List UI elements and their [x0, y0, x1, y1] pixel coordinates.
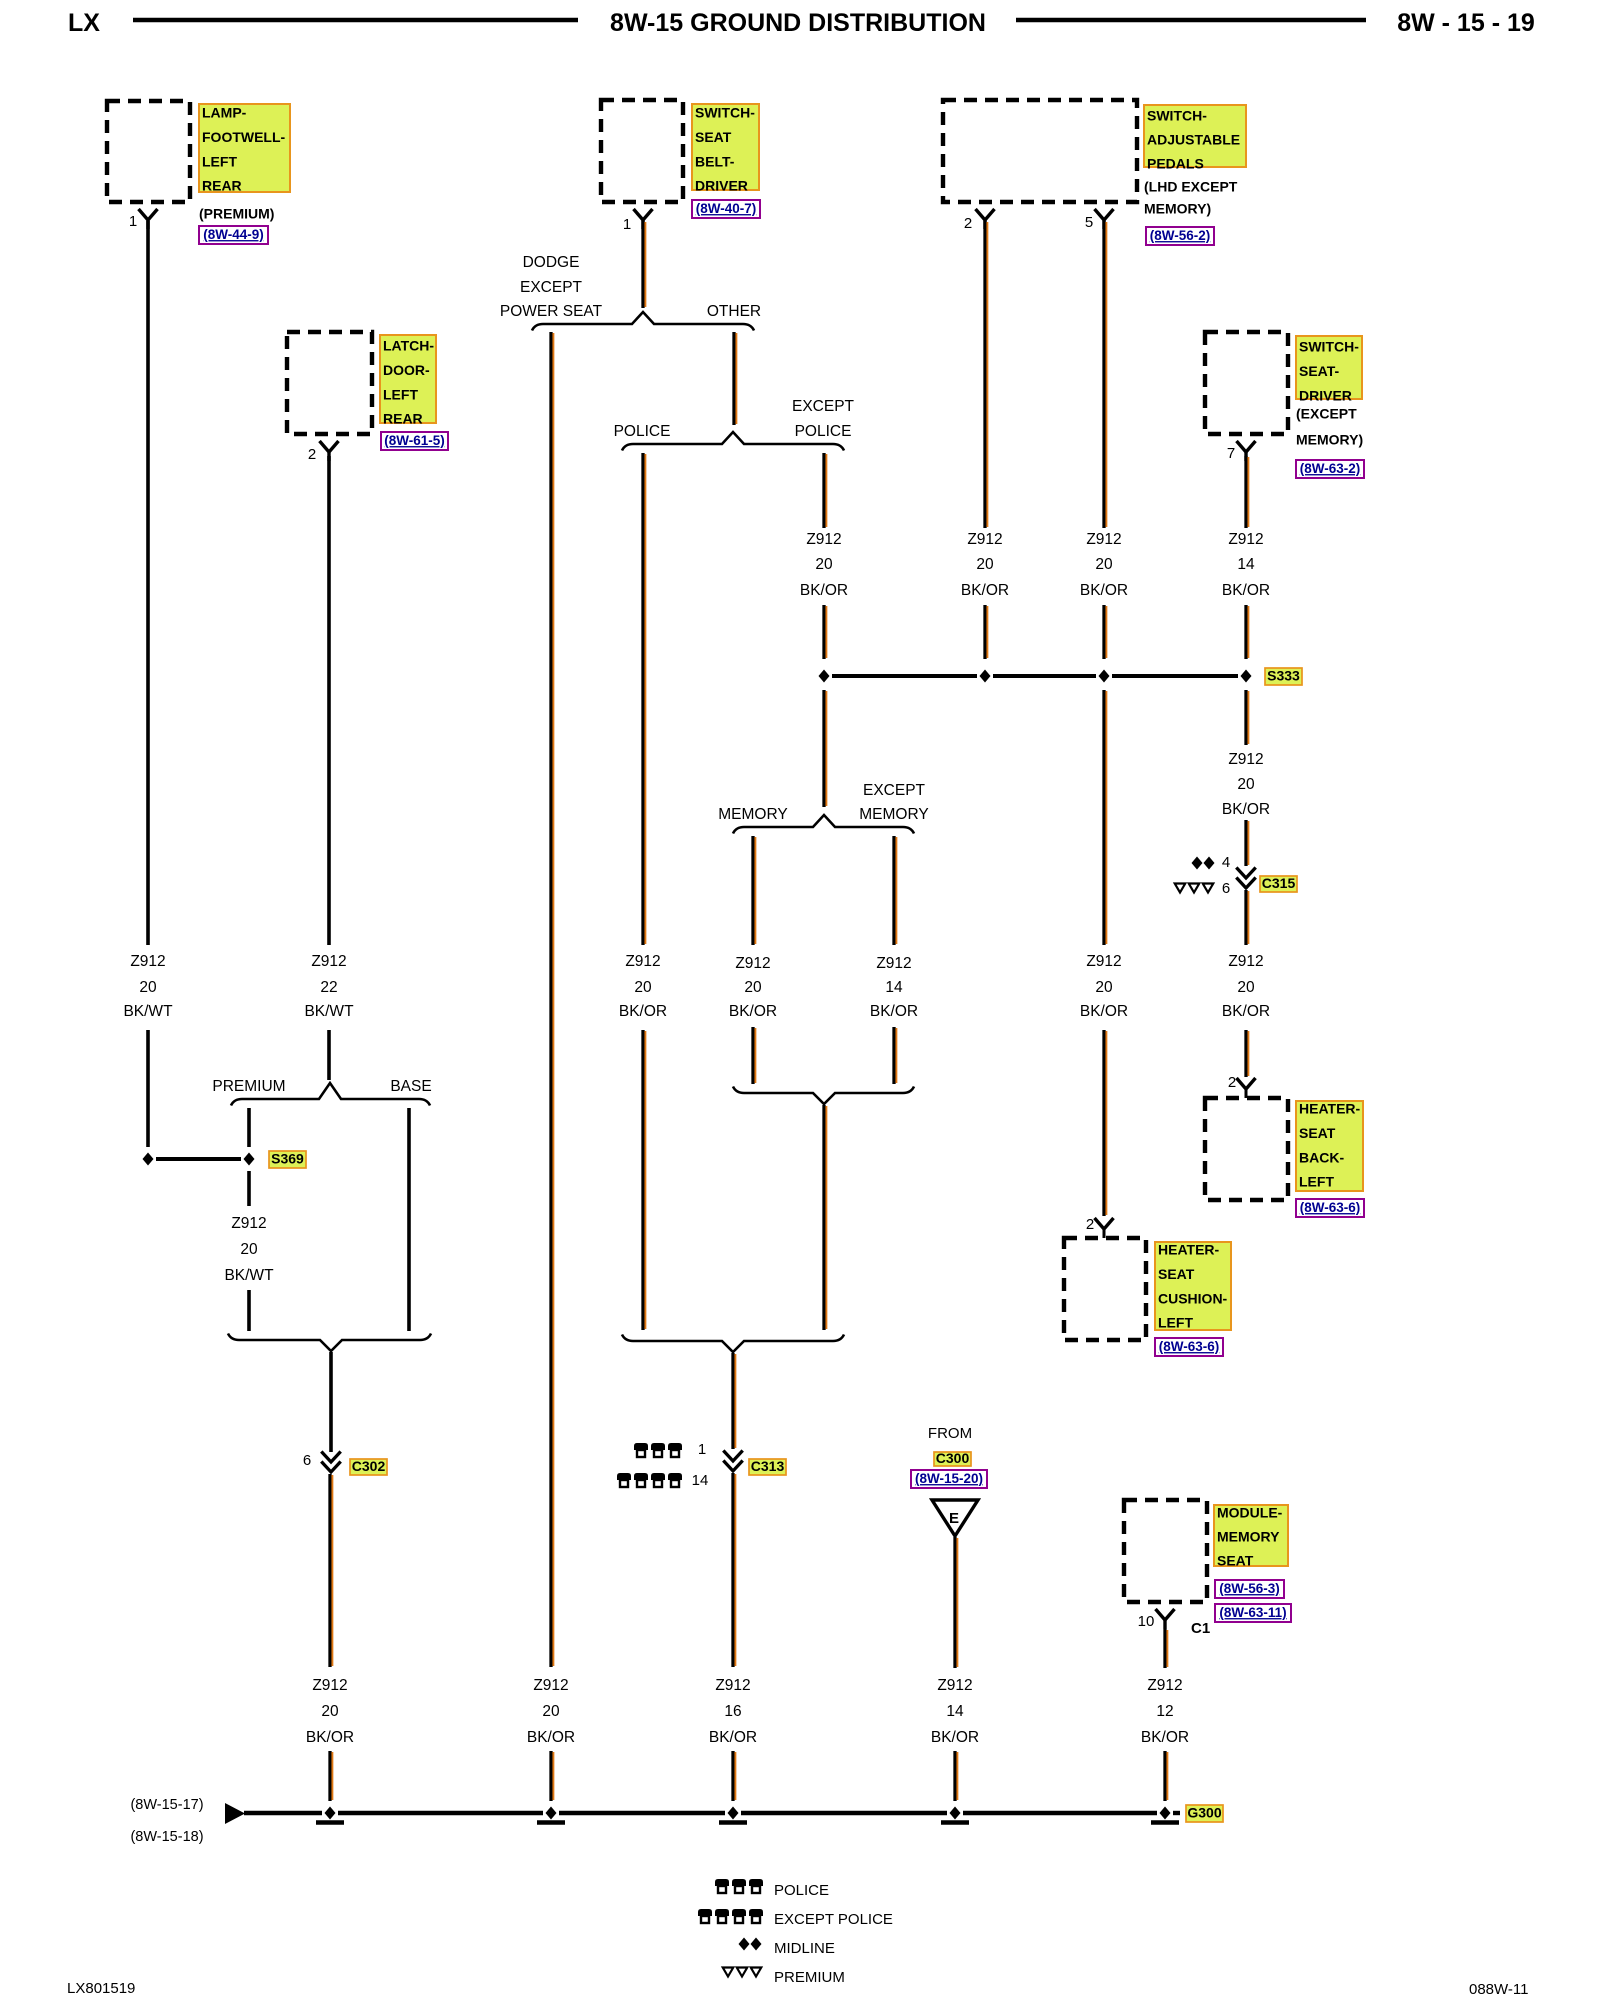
wire EXCEPT MEMORY branch upper	[894, 836, 896, 945]
wire merged memory output	[824, 1105, 826, 1330]
svg-text:Z912: Z912	[937, 1677, 972, 1694]
svg-text:EXCEPT: EXCEPT	[863, 782, 926, 799]
wire Z912 22 BK/WT from latch	[327, 456, 331, 945]
wire seat switch to splice S333	[1246, 605, 1248, 659]
svg-text:SWITCH-: SWITCH-	[1147, 108, 1207, 124]
svg-text:(PREMIUM): (PREMIUM)	[199, 206, 274, 222]
svg-text:E: E	[949, 1510, 959, 1527]
svg-text:POLICE: POLICE	[614, 423, 671, 440]
svg-text:20: 20	[815, 556, 833, 573]
svg-text:Z912: Z912	[1086, 531, 1121, 548]
svg-text:8W-15 GROUND DISTRIBUTION: 8W-15 GROUND DISTRIBUTION	[610, 9, 986, 37]
svg-text:(8W-15-20): (8W-15-20)	[915, 1471, 983, 1486]
svg-text:Z912: Z912	[625, 953, 660, 970]
label (LHD EXCEPT MEMORY)	[1144, 179, 1238, 217]
svg-text:(LHD EXCEPT: (LHD EXCEPT	[1144, 179, 1238, 195]
brace merge police/memory outputs	[622, 1335, 844, 1353]
svg-text:Z912: Z912	[715, 1677, 750, 1694]
svg-text:12: 12	[1156, 1703, 1173, 1720]
in-line connector C313	[723, 1451, 742, 1472]
svg-text:PREMIUM: PREMIUM	[774, 1969, 845, 1986]
wire below C315	[1246, 890, 1248, 945]
svg-text:MODULE-: MODULE-	[1217, 1505, 1283, 1521]
legend police icons	[715, 1879, 729, 1893]
svg-text:BK/OR: BK/OR	[1080, 582, 1128, 599]
component box HEATER-SEAT BACK-LEFT	[1205, 1098, 1288, 1200]
svg-text:C1: C1	[1191, 1620, 1210, 1637]
ground bus arrow	[225, 1803, 245, 1824]
link 8W-63-11	[1215, 1604, 1291, 1622]
svg-text:POWER SEAT: POWER SEAT	[500, 303, 603, 320]
svg-text:20: 20	[542, 1703, 560, 1720]
svg-text:Z912: Z912	[806, 531, 841, 548]
svg-text:(8W-63-6): (8W-63-6)	[1300, 1200, 1361, 1215]
svg-text:20: 20	[1095, 556, 1113, 573]
wire PREMIUM branch to S369	[247, 1108, 251, 1147]
svg-text:20: 20	[976, 556, 994, 573]
wire premium lower	[247, 1290, 251, 1331]
svg-text:6: 6	[303, 1452, 311, 1469]
header rule left	[133, 18, 578, 23]
link 8W-63-6 cushion	[1155, 1338, 1223, 1356]
brace split DODGE/OTHER	[532, 312, 754, 331]
connector Y module C1	[1156, 1609, 1175, 1629]
svg-text:SEAT: SEAT	[695, 129, 732, 145]
svg-text:POLICE: POLICE	[795, 423, 852, 440]
component box LATCH-DOOR-LEFT REAR	[287, 332, 372, 434]
svg-text:DODGE: DODGE	[523, 254, 580, 271]
svg-text:(8W-15-17): (8W-15-17)	[130, 1797, 203, 1813]
wire below S333 on seat switch column	[1246, 690, 1248, 745]
wire to connector C302	[329, 1352, 333, 1452]
wire PREMIUM below S369	[247, 1171, 251, 1206]
svg-text:OTHER: OTHER	[707, 303, 761, 320]
svg-text:LAMP-: LAMP-	[202, 105, 247, 121]
wire stub to ground bus C302 column	[330, 1751, 332, 1801]
wire seat switch upper	[1246, 456, 1248, 528]
header rule right	[1016, 18, 1366, 23]
wire pedals pin 5 to splice S333	[1104, 605, 1106, 659]
wire stub to ground bus C313 column	[733, 1751, 735, 1801]
svg-text:MEMORY: MEMORY	[859, 806, 928, 823]
wire stub to ground bus dodge column	[551, 1751, 553, 1801]
connector Y pedals pin 2	[976, 209, 995, 229]
legend premium icons	[723, 1968, 734, 1977]
link 8W-56-2	[1146, 227, 1214, 245]
svg-text:14: 14	[946, 1703, 964, 1720]
svg-text:PEDALS: PEDALS	[1147, 156, 1204, 172]
link 8W-63-2	[1296, 460, 1364, 478]
svg-text:ADJUSTABLE: ADJUSTABLE	[1147, 132, 1240, 148]
connector tag C315	[1260, 875, 1297, 892]
link 8W-63-6 heater back	[1296, 1199, 1364, 1217]
connector tag C302	[350, 1458, 387, 1475]
svg-text:Z912: Z912	[967, 531, 1002, 548]
svg-text:BK/OR: BK/OR	[619, 1003, 667, 1020]
component box SWITCH-SEAT BELT-DRIVER	[601, 100, 683, 202]
svg-text:SEAT-: SEAT-	[1299, 363, 1340, 379]
svg-text:14: 14	[1237, 556, 1255, 573]
svg-text:DRIVER: DRIVER	[1299, 388, 1352, 404]
svg-text:1: 1	[623, 216, 631, 233]
svg-text:LEFT: LEFT	[383, 386, 418, 402]
svg-text:1: 1	[129, 213, 137, 230]
svg-text:Z912: Z912	[311, 953, 346, 970]
svg-text:MEMORY): MEMORY)	[1144, 201, 1211, 217]
component box SWITCH-ADJUSTABLE PEDALS	[943, 100, 1137, 202]
wire POLICE branch upper	[643, 453, 645, 945]
label LATCH-DOOR-LEFT REAR	[380, 335, 436, 427]
svg-text:BK/OR: BK/OR	[1222, 582, 1270, 599]
brace split MEMORY/EXCEPT MEMORY	[733, 815, 914, 834]
svg-text:DOOR-: DOOR-	[383, 362, 430, 378]
svg-text:SEAT: SEAT	[1217, 1553, 1254, 1569]
wire Z912 20 BK/WT from lamp	[146, 221, 150, 945]
svg-text:Z912: Z912	[130, 953, 165, 970]
svg-text:LEFT: LEFT	[202, 153, 237, 169]
junction at pedals pin 5 wire	[1099, 670, 1110, 683]
splice tag S369	[269, 1151, 306, 1168]
connector Y heater cushion	[1095, 1218, 1114, 1229]
svg-text:C300: C300	[936, 1450, 970, 1466]
svg-text:2: 2	[1086, 1216, 1094, 1233]
splice S333 bus	[832, 674, 977, 678]
wire OTHER branch	[734, 332, 736, 425]
junction at seat switch wire	[1241, 670, 1252, 683]
connector Y seat belt switch	[634, 209, 653, 229]
svg-text:MEMORY: MEMORY	[718, 806, 787, 823]
svg-text:16: 16	[724, 1703, 741, 1720]
wire BASE branch	[407, 1108, 411, 1331]
svg-text:Z912: Z912	[876, 955, 911, 972]
ground junction at C300 column	[950, 1807, 961, 1820]
svg-text:C302: C302	[352, 1458, 386, 1474]
wire from S333 to memory brace	[824, 690, 826, 807]
svg-text:(8W-63-2): (8W-63-2)	[1300, 461, 1361, 476]
label SWITCH-SEAT BELT-DRIVER	[692, 104, 759, 194]
link 8W-61-5	[381, 432, 448, 450]
svg-text:4: 4	[1222, 854, 1230, 871]
ground junction at C1 column	[1160, 1807, 1171, 1820]
svg-text:1: 1	[698, 1441, 706, 1458]
svg-text:5: 5	[1085, 214, 1093, 231]
svg-text:Z912: Z912	[1086, 953, 1121, 970]
label (PREMIUM)	[199, 206, 274, 222]
svg-text:(8W-63-11): (8W-63-11)	[1219, 1605, 1286, 1620]
connector Y heater back	[1237, 1078, 1256, 1089]
wire pedals pin 2 upper	[985, 221, 987, 528]
svg-text:BK/OR: BK/OR	[527, 1729, 575, 1746]
svg-text:20: 20	[744, 979, 762, 996]
svg-text:Z912: Z912	[231, 1215, 266, 1232]
wire from S333 pin5 splice down	[1104, 690, 1106, 945]
svg-text:POLICE: POLICE	[774, 1882, 829, 1899]
svg-text:PREMIUM: PREMIUM	[212, 1078, 285, 1095]
svg-text:EXCEPT: EXCEPT	[792, 398, 855, 415]
svg-text:2: 2	[964, 215, 972, 232]
svg-text:BK/OR: BK/OR	[1080, 1003, 1128, 1020]
legend except police icons	[698, 1909, 712, 1923]
svg-text:BASE: BASE	[390, 1078, 431, 1095]
wire EXCEPT POLICE branch	[824, 453, 826, 528]
wire from C300 E	[955, 1537, 957, 1668]
svg-text:SEAT: SEAT	[1158, 1266, 1195, 1282]
label MODULE-MEMORY SEAT	[1214, 1505, 1288, 1569]
brace merge premium/base	[228, 1334, 431, 1352]
svg-text:REAR: REAR	[383, 411, 423, 427]
svg-text:(8W-63-6): (8W-63-6)	[1159, 1339, 1220, 1354]
svg-text:SWITCH-: SWITCH-	[695, 105, 755, 121]
junction at lamp wire	[143, 1153, 154, 1166]
svg-text:BK/OR: BK/OR	[729, 1003, 777, 1020]
svg-text:(8W-40-7): (8W-40-7)	[696, 201, 757, 216]
svg-text:HEATER-: HEATER-	[1158, 1242, 1220, 1258]
wire DODGE EXCEPT POWER SEAT branch	[551, 332, 553, 1667]
in-line connector C302	[321, 1452, 340, 1473]
component box LAMP-FOOTWELL-LEFT REAR	[107, 101, 190, 202]
in-line connector C315	[1236, 868, 1255, 889]
off-page connector E triangle	[932, 1500, 978, 1536]
label LAMP-FOOTWELL-LEFT REAR	[199, 104, 290, 194]
wire from seat belt switch to brace	[643, 221, 645, 308]
wire to heater cushion	[1104, 1030, 1106, 1216]
ground junction at C302 column	[325, 1807, 336, 1820]
svg-text:LX: LX	[68, 9, 100, 37]
junction at pedals pin 2 wire	[980, 670, 991, 683]
ground junction at dodge column	[546, 1807, 557, 1820]
svg-text:HEATER-: HEATER-	[1299, 1101, 1361, 1117]
svg-text:(EXCEPT: (EXCEPT	[1296, 406, 1357, 422]
wire except police to splice S333	[824, 605, 826, 659]
wire to C315	[1246, 820, 1248, 866]
svg-text:BK/OR: BK/OR	[870, 1003, 918, 1020]
label (EXCEPT MEMORY)	[1296, 406, 1363, 448]
svg-text:BK/WT: BK/WT	[224, 1267, 274, 1284]
svg-text:(8W-56-2): (8W-56-2)	[1150, 228, 1211, 243]
brace merge memory branches	[733, 1087, 914, 1105]
svg-text:20: 20	[240, 1241, 258, 1258]
svg-text:088W-11: 088W-11	[1469, 1981, 1528, 1998]
wire stub to ground bus C1 column	[1165, 1751, 1167, 1801]
svg-text:BACK-: BACK-	[1299, 1149, 1344, 1165]
svg-text:LEFT: LEFT	[1299, 1174, 1334, 1190]
wire below C313	[733, 1473, 735, 1667]
svg-text:10: 10	[1138, 1613, 1155, 1630]
svg-text:S369: S369	[271, 1151, 304, 1167]
component box HEATER-SEAT CUSHION-LEFT	[1064, 1238, 1146, 1340]
svg-text:C315: C315	[1262, 875, 1296, 891]
ground junction at C313 column	[728, 1807, 739, 1820]
wire below C302	[330, 1474, 332, 1667]
svg-text:20: 20	[1095, 979, 1113, 996]
link 8W-44-9	[199, 226, 268, 244]
svg-text:LATCH-: LATCH-	[383, 338, 434, 354]
svg-text:BK/OR: BK/OR	[931, 1729, 979, 1746]
svg-text:2: 2	[308, 446, 316, 463]
connector tag C300	[934, 1450, 971, 1466]
wire POLICE branch lower	[643, 1030, 645, 1330]
brace split POLICE/EXCEPT POLICE	[622, 432, 844, 451]
label HEATER-SEAT BACK-LEFT	[1296, 1101, 1363, 1191]
midline variant icons (2 diamonds)	[1192, 857, 1203, 870]
svg-text:EXCEPT: EXCEPT	[520, 279, 583, 296]
svg-text:20: 20	[321, 1703, 339, 1720]
svg-text:BK/WT: BK/WT	[123, 1003, 173, 1020]
connector Y latch door	[320, 441, 339, 461]
svg-text:BK/OR: BK/OR	[709, 1729, 757, 1746]
except police variant icons (4 terminals)	[617, 1473, 631, 1487]
svg-text:8W - 15 - 19: 8W - 15 - 19	[1397, 9, 1535, 37]
svg-text:(8W-56-3): (8W-56-3)	[1219, 1581, 1280, 1596]
svg-text:FROM: FROM	[928, 1425, 972, 1442]
wire below C1	[1165, 1629, 1167, 1668]
connector Y seat switch	[1237, 441, 1256, 461]
label SWITCH-ADJUSTABLE PEDALS	[1144, 105, 1246, 172]
svg-text:2: 2	[1228, 1074, 1236, 1091]
svg-text:20: 20	[1237, 979, 1255, 996]
svg-text:BK/OR: BK/OR	[961, 582, 1009, 599]
connector tag C313	[749, 1458, 786, 1475]
link 8W-56-3	[1215, 1580, 1284, 1598]
svg-text:S333: S333	[1267, 668, 1300, 684]
svg-text:BK/WT: BK/WT	[304, 1003, 354, 1020]
svg-text:BK/OR: BK/OR	[1222, 801, 1270, 818]
junction at except police wire	[819, 670, 830, 683]
svg-text:Z912: Z912	[1228, 531, 1263, 548]
svg-text:6: 6	[1222, 880, 1230, 897]
splice S369 bus	[156, 1157, 241, 1161]
svg-text:Z912: Z912	[1228, 953, 1263, 970]
svg-text:Z912: Z912	[1228, 751, 1263, 768]
label SWITCH-SEAT-DRIVER	[1296, 336, 1362, 404]
connector Y lamp footwell	[139, 209, 158, 229]
link 8W-15-20	[911, 1470, 987, 1488]
svg-text:BK/OR: BK/OR	[800, 582, 848, 599]
svg-text:SEAT: SEAT	[1299, 1125, 1336, 1141]
police variant icons (3 terminals)	[634, 1443, 648, 1457]
svg-text:14: 14	[885, 979, 903, 996]
svg-text:FOOTWELL-: FOOTWELL-	[202, 129, 286, 145]
svg-text:Z912: Z912	[312, 1677, 347, 1694]
svg-text:(8W-44-9): (8W-44-9)	[203, 227, 264, 242]
svg-text:7: 7	[1227, 445, 1235, 462]
svg-text:C313: C313	[751, 1458, 785, 1474]
legend midline icons	[739, 1938, 750, 1951]
label HEATER-SEAT CUSHION-LEFT	[1155, 1242, 1231, 1331]
wire MEMORY branch lower	[753, 1027, 755, 1084]
svg-text:CUSHION-: CUSHION-	[1158, 1290, 1228, 1306]
svg-text:G300: G300	[1187, 1805, 1221, 1821]
wire Z912 20 BK/WT to splice S369	[146, 1030, 150, 1147]
premium variant icons (3 triangles)	[1175, 884, 1186, 893]
svg-text:Z912: Z912	[735, 955, 770, 972]
brace split PREMIUM/BASE	[231, 1083, 430, 1106]
svg-text:BK/OR: BK/OR	[306, 1729, 354, 1746]
wire MEMORY branch upper	[753, 836, 755, 945]
svg-text:REAR: REAR	[202, 178, 242, 194]
wire Z912 22 BK/WT to premium/base brace	[327, 1030, 331, 1080]
junction at premium wire	[244, 1153, 255, 1166]
svg-text:Z912: Z912	[533, 1677, 568, 1694]
svg-text:(8W-61-5): (8W-61-5)	[384, 433, 445, 448]
component box MODULE-MEMORY SEAT	[1124, 1500, 1207, 1602]
ground tag G300	[1186, 1805, 1223, 1822]
svg-text:BK/OR: BK/OR	[1141, 1729, 1189, 1746]
connector Y pedals pin 5	[1095, 209, 1114, 229]
svg-text:20: 20	[139, 979, 157, 996]
svg-text:SWITCH-: SWITCH-	[1299, 339, 1359, 355]
svg-text:MEMORY: MEMORY	[1217, 1529, 1280, 1545]
svg-text:BELT-: BELT-	[695, 153, 735, 169]
svg-text:MEMORY): MEMORY)	[1296, 432, 1363, 448]
wire to heater back	[1246, 1030, 1248, 1077]
svg-text:EXCEPT POLICE: EXCEPT POLICE	[774, 1911, 893, 1928]
wire to connector C313	[733, 1353, 735, 1449]
wire stub to ground bus C300 column	[955, 1751, 957, 1801]
svg-text:Z912: Z912	[1147, 1677, 1182, 1694]
component box SWITCH-SEAT-DRIVER	[1205, 332, 1288, 434]
svg-text:MIDLINE: MIDLINE	[774, 1940, 835, 1957]
svg-text:LEFT: LEFT	[1158, 1315, 1193, 1331]
link 8W-40-7	[692, 200, 760, 218]
ground bus G300 line	[244, 1811, 322, 1815]
svg-text:LX801519: LX801519	[67, 1980, 135, 1997]
svg-text:20: 20	[1237, 776, 1255, 793]
wire pedals pin 2 to splice S333	[985, 605, 987, 659]
wire EXCEPT MEMORY branch lower	[894, 1027, 896, 1084]
svg-text:20: 20	[634, 979, 652, 996]
svg-text:(8W-15-18): (8W-15-18)	[130, 1829, 203, 1845]
svg-text:DRIVER: DRIVER	[695, 178, 748, 194]
svg-text:14: 14	[692, 1472, 709, 1489]
svg-text:22: 22	[320, 979, 337, 996]
splice tag S333	[1265, 668, 1302, 685]
wire pedals pin 5 upper	[1104, 221, 1106, 528]
svg-text:BK/OR: BK/OR	[1222, 1003, 1270, 1020]
